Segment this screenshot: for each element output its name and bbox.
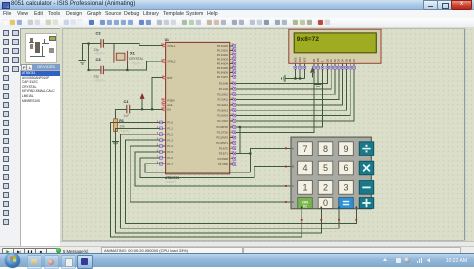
wire to C2 node: [82, 43, 88, 45]
wire P1.7: [145, 164, 251, 173]
svg-text:<TEXT>: <TEXT>: [131, 61, 142, 65]
svg-text:P2.7/A15: P2.7/A15: [217, 119, 228, 123]
wire keypad row A: [250, 148, 285, 172]
svg-text:P3.1/TXD: P3.1/TXD: [217, 130, 228, 134]
svg-text:P1.6: P1.6: [167, 156, 173, 160]
svg-text:P2.2/A10: P2.2/A10: [217, 92, 228, 96]
wire C1 to R1: [116, 109, 127, 119]
svg-text:8: 8: [323, 144, 328, 154]
svg-text:4: 4: [302, 163, 307, 173]
wire crystal right to XTAL2 wire: [126, 63, 128, 70]
svg-text:P1.5: P1.5: [167, 150, 173, 154]
U1 right pins P3: [216, 125, 235, 167]
svg-text:P1.7: P1.7: [167, 162, 173, 166]
svg-text:9x8=72: 9x8=72: [297, 36, 320, 43]
svg-text:P0.6/AD6: P0.6/AD6: [217, 71, 229, 75]
power arrow (LCD VDD): [310, 67, 315, 72]
svg-text:P2.0/A8: P2.0/A8: [219, 82, 229, 86]
U1 right pins P0 (unconnected): [217, 44, 236, 79]
svg-text:P2.1/A9: P2.1/A9: [219, 87, 229, 91]
wire P1.2: [120, 134, 339, 228]
svg-text:P2.5/A13: P2.5/A13: [217, 108, 228, 112]
crystal X1: [114, 51, 128, 63]
microcontroller U1 AT89C51 body: [166, 42, 230, 173]
svg-text:6: 6: [343, 163, 348, 173]
svg-text:C3: C3: [96, 57, 102, 62]
svg-text:P0.1/AD1: P0.1/AD1: [217, 49, 229, 53]
svg-text:9: 9: [343, 144, 348, 154]
svg-text:RS: RS: [313, 58, 316, 62]
svg-text:P0.7/AD7: P0.7/AD7: [217, 75, 229, 79]
svg-text:P3.4/T0: P3.4/T0: [219, 146, 229, 150]
wire VSS/VDD/VEE ground rail: [294, 69, 296, 79]
svg-text:XTAL2: XTAL2: [167, 59, 176, 63]
U1 pins P1.0-P1.7 left: [157, 120, 174, 166]
svg-text:P2.6/A14: P2.6/A14: [217, 114, 228, 118]
wire C3 to XTAL2: [103, 61, 165, 70]
svg-text:ALE: ALE: [167, 103, 172, 107]
wire P1.3: [125, 140, 356, 223]
svg-text:<TEXT>: <TEXT>: [119, 129, 130, 133]
svg-text:<TEXT>: <TEXT>: [165, 180, 176, 184]
ground (reset section): [112, 141, 119, 144]
keypad buttons: [298, 142, 313, 156]
keypad KEYPAD-SMALLCALC body: [291, 137, 371, 209]
svg-text:P2.3/A11: P2.3/A11: [218, 98, 229, 102]
svg-text:P3.5/T1: P3.5/T1: [219, 152, 229, 156]
svg-text:P2.4/A12: P2.4/A12: [217, 103, 228, 107]
svg-text:7: 7: [302, 144, 307, 154]
svg-text:P1.1: P1.1: [167, 127, 173, 131]
wire R1 to ground: [115, 132, 117, 142]
svg-text:P3.0/RXD: P3.0/RXD: [216, 125, 228, 129]
wire C2 to XTAL1: [103, 44, 165, 46]
wire E to P3.0: [236, 69, 323, 127]
wire P1.1: [116, 128, 322, 233]
svg-text:B: B: [292, 165, 294, 169]
capacitor C1: [127, 105, 130, 114]
wire P1.5: [135, 152, 287, 186]
svg-text:U1: U1: [165, 38, 169, 42]
svg-text:P0.4/AD4: P0.4/AD4: [217, 62, 229, 66]
node: C2/C3 left junction vertical wire: [88, 44, 90, 70]
svg-text:RST: RST: [167, 76, 173, 80]
svg-text:<TEXT>: <TEXT>: [94, 78, 105, 82]
svg-text:CRYSTAL: CRYSTAL: [129, 57, 144, 61]
LCD display LCD1 LM016L body: [289, 29, 381, 63]
svg-text:P1.4: P1.4: [167, 144, 173, 148]
svg-text:P3.3/INT1: P3.3/INT1: [216, 141, 228, 145]
ground (crystal section): [79, 61, 86, 64]
svg-text:3: 3: [343, 183, 348, 193]
wire crystal left to XTAL1 wire: [113, 44, 115, 51]
wire P1.0: [111, 122, 302, 236]
svg-text:/C: /C: [303, 204, 307, 209]
wire VCC to RST node: [141, 99, 143, 110]
svg-text:D: D: [292, 200, 294, 204]
wire P1.4: [130, 146, 286, 202]
wire P3.5 to keypad row A riser: [236, 153, 251, 155]
svg-text:P0.0/AD0: P0.0/AD0: [217, 44, 229, 48]
wire RST pin riser: [152, 78, 166, 110]
wires LCD D0-D7 to P2.0-P2.7: [236, 69, 354, 121]
ground (RW pin): [317, 69, 319, 84]
wire E-net branch down: [239, 127, 241, 154]
svg-text:P3.6/WR: P3.6/WR: [218, 157, 229, 161]
LCD screen: [294, 33, 376, 53]
svg-text:A: A: [292, 147, 294, 151]
U1 right pins P2: [217, 81, 235, 123]
keypad row pins A-D: [286, 147, 291, 149]
svg-text:C: C: [292, 184, 294, 188]
LCD pin stubs and labels: [294, 57, 356, 69]
pin stubs: [230, 45, 233, 47]
U1 left pin labels: [161, 43, 176, 111]
svg-text:VEE: VEE: [303, 57, 306, 62]
svg-text:5: 5: [323, 163, 328, 173]
svg-text:VSS: VSS: [294, 57, 297, 62]
svg-text:PSEN: PSEN: [167, 99, 174, 103]
wire P1.6: [140, 158, 286, 178]
capacitor C2: [89, 43, 101, 45]
wire ground stem: [81, 43, 83, 60]
svg-text:P3.2/INT0: P3.2/INT0: [216, 136, 228, 140]
wire RST net: [130, 108, 166, 110]
svg-text:P0.3/AD3: P0.3/AD3: [217, 57, 229, 61]
resistor R1: [114, 119, 118, 132]
wire RS to P3.1: [236, 69, 314, 132]
svg-text:P1.0: P1.0: [167, 121, 173, 125]
svg-text:P1.3: P1.3: [167, 138, 173, 142]
svg-text:X1: X1: [130, 50, 136, 55]
svg-text:P1.2: P1.2: [167, 132, 173, 136]
ground (LCD, rotated left): [282, 75, 285, 82]
svg-text:P0.5/AD5: P0.5/AD5: [217, 66, 229, 70]
svg-text:1uF: 1uF: [124, 114, 130, 118]
svg-text:C2: C2: [96, 31, 102, 36]
svg-text:EA: EA: [167, 108, 171, 112]
svg-text:P0.2/AD2: P0.2/AD2: [217, 53, 229, 57]
keypad column pins 1-4: [301, 209, 303, 220]
svg-text:<TEXT>: <TEXT>: [94, 52, 105, 56]
svg-text:P3.7/RD: P3.7/RD: [218, 162, 228, 166]
svg-text:C1: C1: [124, 99, 130, 104]
svg-text:VDD: VDD: [299, 57, 302, 62]
capacitor C3: [89, 69, 101, 71]
svg-text:1: 1: [302, 183, 307, 193]
svg-text:2: 2: [323, 183, 328, 193]
sheet border: [62, 29, 464, 240]
svg-text:0: 0: [323, 198, 328, 208]
power VCC arrow: [140, 93, 144, 98]
svg-text:XTAL1: XTAL1: [167, 44, 176, 48]
